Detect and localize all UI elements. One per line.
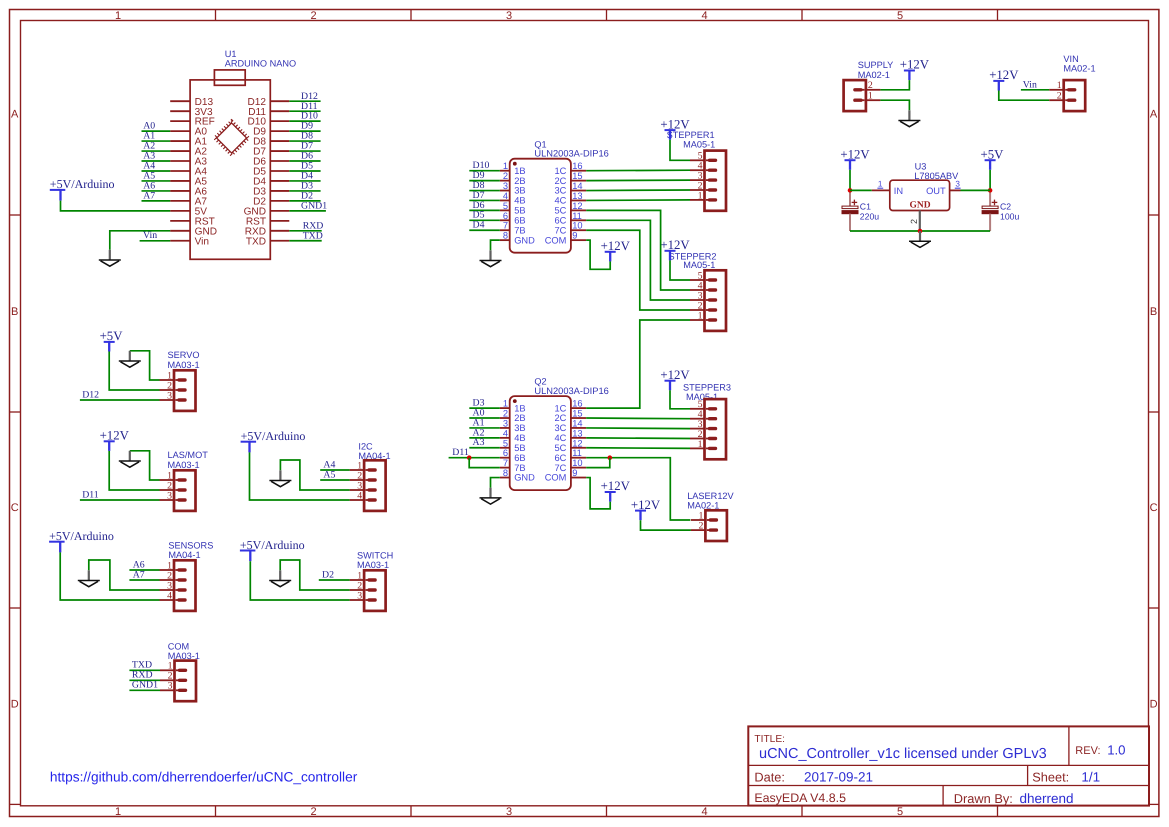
- U3 pin number 3: [955, 180, 961, 189]
- svg-text:B: B: [1150, 306, 1157, 318]
- wire D2 to SWITCH.1: [319, 579, 350, 581]
- connector LAS/MOT name: [168, 450, 209, 470]
- svg-text:A7: A7: [133, 569, 145, 580]
- svg-text:U3: U3: [915, 161, 927, 171]
- connector LASER12V name: [687, 491, 734, 510]
- svg-text:MA02-1: MA02-1: [687, 500, 719, 510]
- svg-text:GND1: GND1: [132, 680, 158, 691]
- wire A6 to U1: [142, 190, 171, 192]
- svg-text:D: D: [1150, 699, 1158, 711]
- connector LASER12V (MA02-1): [691, 510, 727, 541]
- wire D10 to Q1 pin 1: [469, 170, 500, 172]
- svg-text:1: 1: [868, 91, 873, 102]
- connector I2C (MA04-1): [350, 460, 386, 511]
- svg-text:SERVO: SERVO: [168, 350, 200, 360]
- wire D12 to SERVO.3: [80, 399, 160, 401]
- svg-text:MA02-1: MA02-1: [1063, 63, 1095, 73]
- svg-text:5C: 5C: [555, 206, 567, 216]
- power flag +12V (U3 in): [840, 147, 870, 169]
- svg-text:3B: 3B: [514, 186, 525, 196]
- svg-text:MA03-1: MA03-1: [357, 560, 389, 570]
- svg-text:STEPPER3: STEPPER3: [683, 382, 731, 392]
- svg-text:2: 2: [698, 521, 703, 532]
- wire +5V/Arduino to U1 5V pin: [61, 201, 171, 211]
- svg-text:COM: COM: [545, 473, 567, 483]
- wire U1 GND pin to ground: [110, 231, 170, 250]
- wire A5 to I2C.2: [320, 479, 349, 481]
- svg-text:15: 15: [572, 171, 582, 181]
- svg-text:GND: GND: [909, 200, 930, 210]
- wire ground to SERVO.1: [130, 351, 160, 380]
- svg-text:1: 1: [503, 161, 508, 171]
- wire A1 to U1: [142, 140, 171, 142]
- wire Q1.4C to STEPPER1.1: [586, 199, 690, 202]
- svg-text:1.0: 1.0: [1107, 743, 1125, 758]
- svg-text:10: 10: [572, 221, 582, 231]
- svg-text:1B: 1B: [514, 166, 525, 176]
- svg-text:ULN2003A-DIP16: ULN2003A-DIP16: [534, 149, 608, 159]
- connector STEPPER3 name: [683, 382, 731, 402]
- svg-text:3: 3: [506, 10, 512, 22]
- U1 usb connector rectangle: [214, 70, 245, 85]
- Q2 pin numbers: [503, 399, 583, 478]
- svg-text:MA02-1: MA02-1: [858, 70, 890, 80]
- connector SUPPLY name: [858, 60, 894, 80]
- svg-text:7C: 7C: [555, 225, 567, 235]
- svg-text:GND: GND: [514, 473, 535, 483]
- power flag +5V/Arduino (SWITCH): [240, 538, 305, 561]
- svg-text:MA03-1: MA03-1: [168, 460, 200, 470]
- wire D5 from U1: [289, 170, 320, 172]
- svg-text:A: A: [11, 109, 19, 121]
- wire Q2 6C to 7C: [586, 458, 610, 468]
- svg-text:6C: 6C: [555, 216, 567, 226]
- power flag +12V (LASER12V): [631, 498, 661, 520]
- connector COM (MA03-1): [160, 661, 196, 702]
- svg-text:7C: 7C: [555, 463, 567, 473]
- connector SWITCH name: [357, 550, 393, 570]
- wire +12V down to IN node: [849, 170, 851, 191]
- svg-text:2017-09-21: 2017-09-21: [804, 770, 873, 785]
- svg-text:uCNC_Controller_v1c licensed u: uCNC_Controller_v1c licensed under GPLv3: [759, 746, 1047, 762]
- wire ground to LAS/MOT.1: [130, 451, 160, 480]
- svg-text:ULN2003A-DIP16: ULN2003A-DIP16: [534, 386, 608, 396]
- svg-text:1: 1: [878, 180, 883, 189]
- U1 mcu diamond graphic: [215, 121, 249, 155]
- wire D5 to Q1 pin 6: [469, 219, 500, 221]
- wire SUPPLY.1 to ground: [880, 100, 909, 110]
- svg-text:MA05-1: MA05-1: [683, 260, 715, 270]
- svg-text:3: 3: [955, 180, 960, 189]
- ground (U3): [909, 231, 931, 247]
- wire D11 from U1: [289, 110, 320, 112]
- svg-text:3C: 3C: [555, 423, 567, 433]
- svg-text:2B: 2B: [514, 413, 525, 423]
- wire GND1 from U1: [289, 210, 326, 212]
- ground (Q2): [480, 488, 502, 504]
- svg-text:7: 7: [503, 458, 508, 468]
- ground (SENSORS): [78, 570, 100, 586]
- wire +12V to LASER12V.2: [641, 520, 691, 530]
- frame column ticks (top): [216, 10, 998, 21]
- connector STEPPER3 (MA05-1): [690, 399, 726, 459]
- wire Q1 COM to +12V: [586, 240, 610, 269]
- ground (SWITCH): [269, 570, 291, 586]
- U1 pin names: [195, 97, 267, 248]
- wire D11 to LAS/MOT.3: [80, 499, 160, 501]
- power flag +5V/Arduino (SENSORS): [49, 529, 114, 552]
- power flag +5V/Arduino (I2C): [241, 429, 306, 452]
- svg-text:4C: 4C: [555, 433, 567, 443]
- svg-text:5: 5: [897, 806, 903, 818]
- svg-text:1C: 1C: [555, 403, 567, 413]
- wire +12V to VIN.2: [999, 91, 1049, 101]
- svg-text:1/1: 1/1: [1081, 770, 1100, 785]
- Q1 pin names: [514, 166, 566, 245]
- U3 pin number 1: [877, 180, 883, 189]
- wire D2 from U1: [289, 200, 320, 202]
- wire D8 to Q1 pin 3: [469, 190, 500, 192]
- svg-text:D4: D4: [473, 220, 485, 231]
- svg-text:15: 15: [572, 409, 582, 419]
- wire D9 to Q1 pin 2: [469, 180, 500, 182]
- svg-text:220u: 220u: [860, 211, 879, 221]
- svg-text:Vin: Vin: [195, 236, 209, 247]
- svg-text:SENSORS: SENSORS: [168, 540, 213, 550]
- ground (SUPPLY): [898, 110, 920, 126]
- Q1 pin1 orientation dot: [513, 162, 517, 166]
- wire +5V/Arduino to I2C.4: [250, 452, 350, 500]
- wire Q2.3C to STEPPER3.3: [586, 427, 690, 430]
- wire Q2 GND(8) to ground: [491, 478, 500, 488]
- wire Vin to U1: [140, 240, 171, 242]
- wire IN node to U3.1: [850, 189, 872, 191]
- svg-text:A3: A3: [473, 437, 485, 448]
- connector SENSORS name: [168, 540, 213, 560]
- svg-text:14: 14: [572, 418, 582, 428]
- svg-text:1: 1: [698, 310, 703, 321]
- ground (LAS/MOT): [119, 451, 141, 467]
- svg-text:13: 13: [572, 191, 582, 201]
- svg-text:A5: A5: [323, 469, 335, 480]
- svg-text:OUT: OUT: [926, 186, 946, 196]
- wire A7 to U1: [142, 200, 171, 202]
- svg-text:Drawn By:: Drawn By:: [954, 791, 1013, 806]
- wire A7 to SENSORS.2: [129, 579, 159, 581]
- connector STEPPER2 name: [669, 251, 717, 270]
- svg-text:2: 2: [909, 219, 919, 224]
- svg-text:6: 6: [503, 448, 508, 458]
- U3 pin 3 stub: [950, 189, 961, 191]
- svg-text:L7805ABV: L7805ABV: [914, 171, 959, 181]
- svg-text:5: 5: [503, 201, 508, 211]
- frame row ticks (right): [1149, 215, 1159, 804]
- svg-text:Vin: Vin: [143, 230, 157, 241]
- wire Q2 6B to 7B: [469, 458, 500, 468]
- power flag +12V (STEPPER1): [660, 117, 690, 139]
- Q1 pin stubs: [500, 171, 586, 240]
- svg-text:Date:: Date:: [754, 770, 785, 785]
- ic Q1 body: [510, 159, 571, 253]
- power flag +12V (Q1 COM): [601, 239, 631, 261]
- wire D11 to Q2 pin 6: [449, 457, 500, 459]
- wire Q2.6C to LASER12V.1: [586, 458, 690, 520]
- svg-text:5B: 5B: [514, 206, 525, 216]
- svg-text:7B: 7B: [514, 463, 525, 473]
- svg-text:B: B: [11, 306, 18, 318]
- wire +5V down to OUT node: [989, 170, 991, 191]
- junction dot GND node: [918, 229, 923, 234]
- svg-text:4B: 4B: [514, 433, 525, 443]
- wire D6 to Q1 pin 5: [469, 209, 500, 211]
- wire +5V to SERVO.2: [109, 352, 159, 391]
- power flag +5V (U3 out): [981, 147, 1005, 169]
- svg-text:3: 3: [503, 418, 508, 428]
- wire ground to I2C.3: [280, 460, 349, 490]
- svg-text:ARDUINO NANO: ARDUINO NANO: [225, 59, 296, 69]
- connector STEPPER1 (MA05-1): [690, 151, 726, 211]
- wire A3 to U1: [142, 160, 171, 162]
- svg-text:MA04-1: MA04-1: [168, 550, 200, 560]
- wire A6 to SENSORS.1: [129, 569, 159, 571]
- regulator U3 body: [890, 180, 950, 210]
- svg-text:TXD: TXD: [303, 230, 323, 241]
- svg-text:12: 12: [572, 201, 582, 211]
- U3 pin 2 stub: [919, 211, 921, 232]
- wire +12V to STEPPER1 pin5: [670, 140, 690, 161]
- wire RXD from U1: [289, 230, 321, 232]
- power flag +12V (LAS/MOT): [100, 429, 130, 451]
- wire D4 to Q1 pin 7: [469, 229, 500, 231]
- connector STEPPER2 (MA05-1): [690, 270, 726, 331]
- svg-text:13: 13: [572, 428, 582, 438]
- svg-text:8: 8: [503, 468, 508, 478]
- svg-text:D11: D11: [452, 447, 469, 458]
- wire D10 from U1: [289, 120, 320, 122]
- wire Q1.1C to STEPPER1.4: [586, 169, 690, 172]
- wire A4 to U1: [142, 170, 171, 172]
- svg-text:4B: 4B: [514, 196, 525, 206]
- wire A3 to Q2 pin 5: [469, 447, 500, 449]
- wire Vin to VIN.1: [1021, 89, 1049, 91]
- svg-text:4: 4: [167, 590, 172, 601]
- svg-text:1C: 1C: [555, 166, 567, 176]
- connector VIN name: [1063, 54, 1095, 74]
- Q1 pin numbers: [503, 161, 583, 240]
- wire GND1 to COM.3: [129, 689, 160, 691]
- wire TXD from U1: [289, 240, 321, 242]
- svg-text:C: C: [11, 502, 19, 514]
- wire ground bus under U3: [850, 230, 990, 232]
- wire D7 to Q1 pin 4: [469, 199, 500, 201]
- svg-text:12: 12: [572, 438, 582, 448]
- svg-text:14: 14: [572, 181, 582, 191]
- ground (I2C): [269, 470, 291, 486]
- wire +12V to STEPPER2 pin5: [670, 260, 690, 280]
- svg-text:4C: 4C: [555, 196, 567, 206]
- svg-text:2B: 2B: [514, 176, 525, 186]
- svg-text:4: 4: [701, 10, 707, 22]
- svg-text:3: 3: [168, 681, 173, 692]
- power flag +12V (STEPPER3): [660, 368, 690, 390]
- svg-text:MA03-1: MA03-1: [168, 360, 200, 370]
- frame row ticks (left): [10, 215, 21, 804]
- ic Q2 body: [510, 396, 571, 490]
- frame column ticks (bottom): [216, 806, 998, 817]
- svg-text:4: 4: [503, 191, 508, 201]
- svg-text:3: 3: [167, 390, 172, 401]
- Q2 pin stubs: [500, 408, 586, 477]
- svg-text:100u: 100u: [1000, 211, 1019, 221]
- capacitor C1 (220u): [842, 193, 879, 232]
- junction dot IN node: [848, 188, 853, 193]
- frame column numbers (top): [115, 10, 903, 22]
- wire Q2.5C to STEPPER3.1: [586, 447, 690, 450]
- capacitor C2 (100u): [982, 193, 1019, 232]
- svg-text:Vin: Vin: [1023, 79, 1037, 90]
- wire A0 to Q2 pin 2: [469, 417, 500, 419]
- svg-text:2: 2: [1057, 91, 1062, 102]
- wire Q1.2C to STEPPER1.3: [586, 179, 690, 182]
- power flag +5V (SERVO): [100, 329, 124, 351]
- wire STEPPER2.1 to Q2.1C: [586, 320, 690, 408]
- svg-text:GND: GND: [514, 235, 535, 245]
- svg-text:A7: A7: [143, 190, 155, 201]
- svg-text:COM: COM: [168, 642, 189, 652]
- svg-text:LAS/MOT: LAS/MOT: [168, 450, 209, 460]
- frame row letters (right): [1150, 109, 1158, 711]
- svg-text:I2C: I2C: [358, 441, 373, 451]
- wire ground to SWITCH.2: [280, 560, 349, 590]
- svg-text:C: C: [1150, 502, 1158, 514]
- svg-text:6B: 6B: [514, 453, 525, 463]
- connector LAS/MOT (MA03-1): [160, 470, 196, 511]
- svg-text:TITLE:: TITLE:: [754, 734, 785, 745]
- svg-text:VIN: VIN: [1063, 54, 1078, 64]
- connector COM name: [168, 642, 200, 662]
- svg-text:2: 2: [503, 171, 508, 181]
- svg-text:U1: U1: [225, 49, 237, 59]
- title block frame: [748, 726, 1149, 805]
- svg-text:8: 8: [503, 231, 508, 241]
- wire Q2 COM to +12V: [586, 478, 610, 509]
- svg-text:6C: 6C: [555, 453, 567, 463]
- svg-text:1: 1: [115, 10, 121, 22]
- svg-text:7: 7: [503, 221, 508, 231]
- power flag +12V (Q2 COM): [601, 479, 631, 501]
- svg-text:TXD: TXD: [246, 236, 266, 247]
- frame column numbers (bottom): [115, 806, 903, 818]
- connector VIN (MA02-1): [1049, 80, 1085, 111]
- svg-text:4: 4: [503, 428, 508, 438]
- wire D3 to Q2 pin 1: [469, 407, 500, 409]
- svg-text:5: 5: [503, 438, 508, 448]
- U1 pin stubs: [170, 101, 289, 241]
- svg-text:1: 1: [1057, 80, 1062, 91]
- svg-text:1: 1: [698, 439, 703, 450]
- svg-text:MA05-1: MA05-1: [683, 140, 715, 150]
- svg-text:https://github.com/dherrendoer: https://github.com/dherrendoerfer/uCNC_c…: [50, 770, 358, 785]
- wire A2 to U1: [142, 150, 171, 152]
- svg-text:3: 3: [167, 490, 172, 501]
- wire TXD to COM.1: [129, 669, 160, 671]
- svg-text:5B: 5B: [514, 443, 525, 453]
- svg-text:2: 2: [310, 806, 316, 818]
- svg-text:2: 2: [503, 409, 508, 419]
- svg-text:EasyEDA V4.8.5: EasyEDA V4.8.5: [754, 791, 846, 805]
- wire A1 to Q2 pin 3: [469, 427, 500, 429]
- wire +5V/Arduino to SENSORS.4: [60, 552, 159, 600]
- wire D7 from U1: [289, 150, 320, 152]
- power flag +5V/Arduino (U1): [50, 177, 115, 200]
- ground (Q1): [480, 250, 502, 266]
- svg-text:COM: COM: [545, 235, 567, 245]
- wire +5V/Arduino to SWITCH.3: [250, 561, 349, 600]
- wire D3 from U1: [289, 190, 320, 192]
- svg-text:11: 11: [572, 448, 582, 458]
- wire RXD to COM.2: [129, 679, 160, 681]
- svg-text:16: 16: [572, 399, 582, 409]
- op-amp U1 body: [190, 80, 270, 259]
- ground (SERVO): [119, 351, 141, 367]
- wire D4 from U1: [289, 180, 320, 182]
- svg-text:3C: 3C: [555, 186, 567, 196]
- junction dot Q2 6C/7C: [608, 455, 613, 460]
- wire D6 from U1: [289, 160, 320, 162]
- wire ground to SENSORS.3: [89, 560, 160, 590]
- svg-text:7B: 7B: [514, 225, 525, 235]
- Q2 pin1 orientation dot: [513, 399, 517, 403]
- svg-text:REV:: REV:: [1075, 745, 1100, 757]
- frame row letters (left): [11, 109, 19, 711]
- wire D9 from U1: [289, 130, 320, 132]
- svg-text:SWITCH: SWITCH: [357, 550, 393, 560]
- svg-text:3: 3: [506, 806, 512, 818]
- svg-text:3: 3: [357, 590, 362, 601]
- svg-text:16: 16: [572, 161, 582, 171]
- wire D8 from U1: [289, 140, 320, 142]
- svg-text:D2: D2: [322, 569, 334, 580]
- power flag +12V (VIN): [989, 68, 1019, 90]
- svg-text:3B: 3B: [514, 423, 525, 433]
- svg-text:5: 5: [897, 10, 903, 22]
- wire A4 to I2C.1: [320, 469, 349, 471]
- wire A2 to Q2 pin 4: [469, 437, 500, 439]
- svg-text:1: 1: [503, 399, 508, 409]
- svg-text:1: 1: [698, 190, 703, 201]
- connector SERVO (MA03-1): [160, 370, 196, 411]
- wire Q1 GND(8) to ground: [491, 240, 500, 250]
- svg-text:6: 6: [503, 211, 508, 221]
- svg-text:1: 1: [115, 806, 121, 818]
- connector SUPPLY (MA02-1): [844, 80, 881, 111]
- svg-text:2: 2: [310, 10, 316, 22]
- power flag +12V (SUPPLY): [900, 58, 930, 80]
- svg-text:4: 4: [701, 806, 707, 818]
- Q2 pin names: [514, 403, 566, 482]
- svg-text:D11: D11: [82, 489, 99, 500]
- wire A0 to U1: [142, 130, 171, 132]
- wire Q1.5C to STEPPER2.4: [586, 210, 690, 290]
- connector SERVO name: [168, 350, 200, 370]
- svg-text:D12: D12: [82, 389, 99, 400]
- svg-text:2C: 2C: [555, 413, 567, 423]
- connector SENSORS (MA04-1): [160, 560, 196, 611]
- junction dot OUT node: [988, 188, 993, 193]
- svg-text:C1: C1: [860, 201, 871, 211]
- connector I2C name: [358, 441, 390, 461]
- ground (U1): [99, 250, 121, 266]
